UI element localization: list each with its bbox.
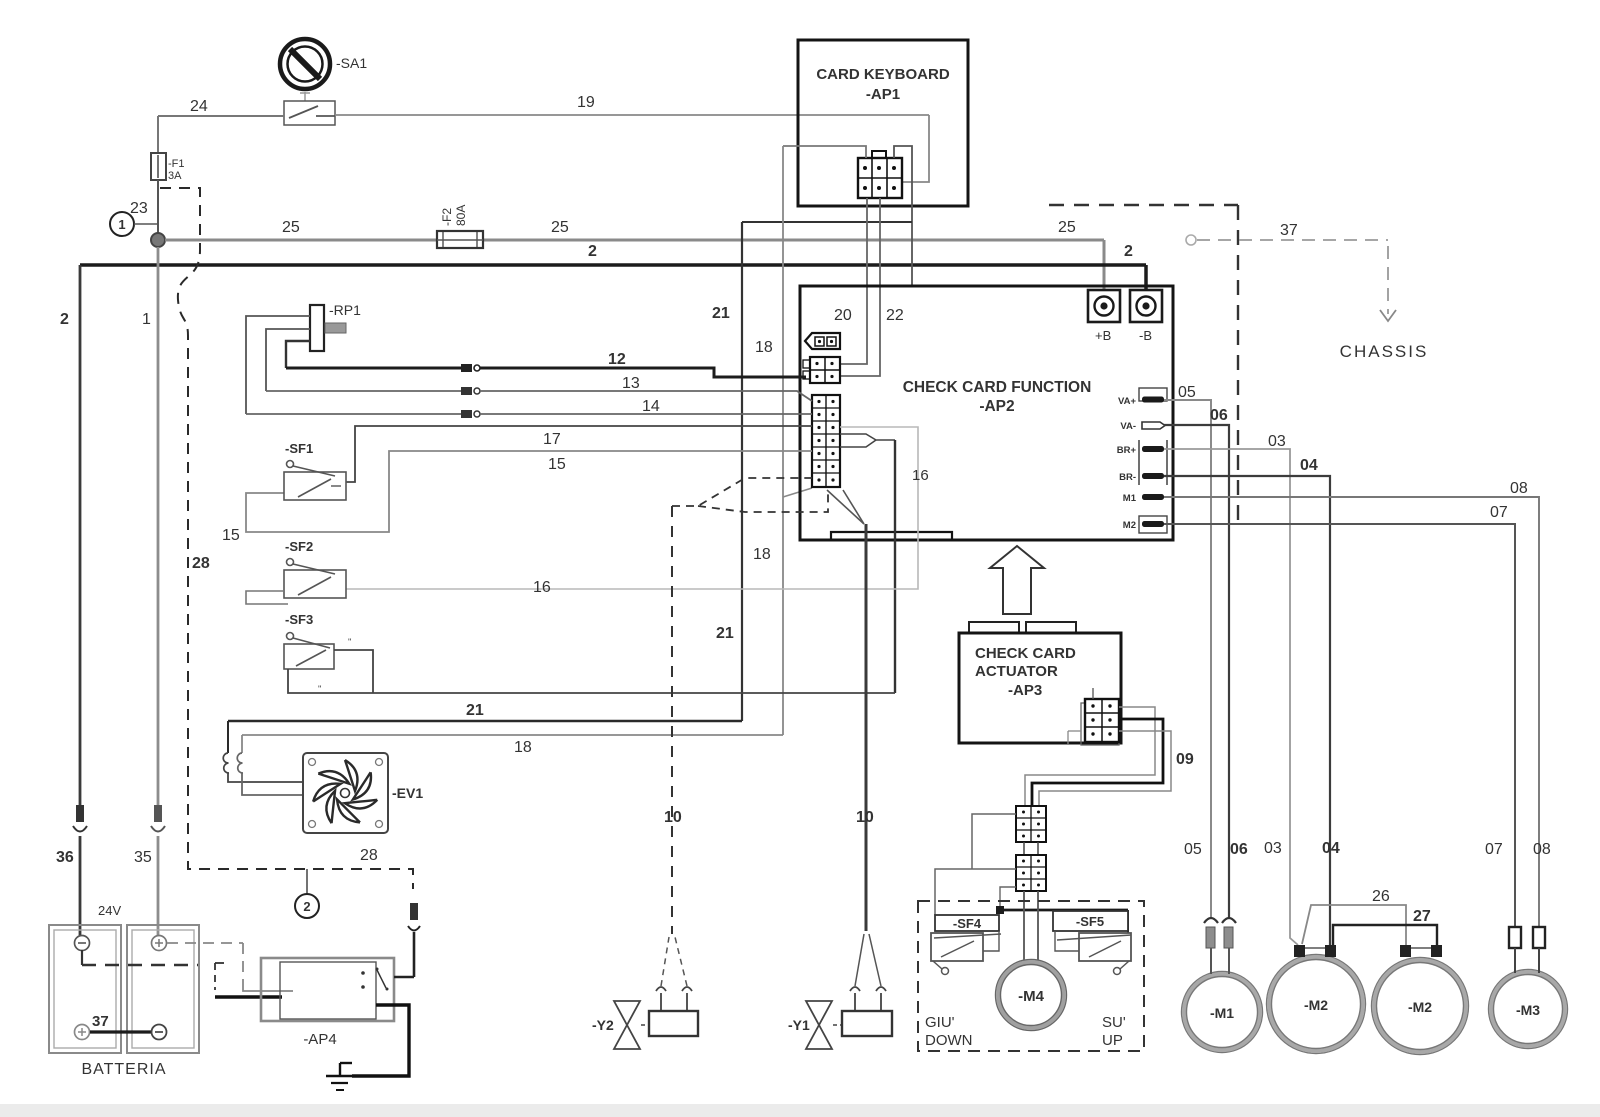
- fuse F2 80A: [437, 205, 483, 248]
- wire 21 lower run to fan: [223, 702, 742, 782]
- AP2 pin M2: [1123, 516, 1167, 533]
- svg-text:-AP4: -AP4: [303, 1031, 336, 1048]
- svg-text:17: 17: [543, 431, 561, 448]
- AP4 to ground wire: [352, 1005, 409, 1076]
- svg-text:07: 07: [1490, 504, 1508, 521]
- AP2 pin M1: [1123, 493, 1164, 504]
- svg-text:CHASSIS: CHASSIS: [1340, 342, 1429, 361]
- svg-text:21: 21: [712, 305, 730, 322]
- limit switch SF5: [1053, 911, 1131, 975]
- wire 1 (from node down): [142, 247, 158, 805]
- svg-text:2: 2: [1124, 243, 1133, 260]
- svg-text:-M2: -M2: [1304, 997, 1328, 1013]
- svg-text:25: 25: [551, 219, 569, 236]
- svg-text:07: 07: [1485, 841, 1503, 858]
- wire 15: [222, 451, 812, 544]
- svg-text:+B: +B: [1095, 328, 1111, 343]
- wire 12: [286, 351, 806, 377]
- svg-text:24V: 24V: [98, 903, 121, 918]
- svg-text:18: 18: [753, 546, 771, 563]
- harness C2 to SF4: [935, 814, 1016, 915]
- switch S (key contact) under SA1: [284, 92, 335, 125]
- M2 second terminals: [1400, 945, 1442, 957]
- wire 07: [1164, 504, 1515, 927]
- dashed wire battery+ to AP4: [167, 943, 293, 991]
- svg-text:-F2: -F2: [440, 208, 454, 226]
- AP2 pin VA-: [1120, 421, 1165, 432]
- GIU' DOWN / SU' UP labels: [925, 1014, 1126, 1049]
- svg-text:05: 05: [1184, 841, 1202, 858]
- svg-text:-Y1: -Y1: [788, 1017, 810, 1033]
- svg-text:08: 08: [1510, 480, 1528, 497]
- terminal circle 1: [110, 212, 158, 236]
- M2 first terminals: [1294, 945, 1336, 957]
- svg-text:10: 10: [664, 809, 682, 826]
- svg-text:-SF4: -SF4: [953, 916, 982, 931]
- svg-text:25: 25: [282, 219, 300, 236]
- svg-text:18: 18: [514, 739, 532, 756]
- wire 36 connector and hook: [56, 805, 87, 936]
- wire 23 (fuse to node): [130, 180, 158, 236]
- wire SF4 to SF5 (thick): [1000, 887, 1128, 933]
- svg-text:13: 13: [622, 375, 640, 392]
- AP4 to hook/28 wire: [394, 903, 420, 977]
- svg-text:-SA1: -SA1: [336, 55, 367, 71]
- connector P1 (2-pin pointed): [805, 333, 840, 349]
- svg-text:SU': SU': [1102, 1014, 1126, 1031]
- wire 05: [1164, 384, 1211, 918]
- svg-text:14: 14: [642, 398, 660, 415]
- svg-text:2: 2: [60, 311, 69, 328]
- wire 22: [840, 198, 904, 376]
- svg-text:-SF2: -SF2: [285, 539, 313, 554]
- svg-text:-SF1: -SF1: [285, 441, 313, 456]
- microswitch SF2: [246, 539, 346, 604]
- svg-text:-AP3: -AP3: [1008, 682, 1042, 699]
- microswitch SF1: [284, 441, 346, 500]
- svg-text:-RP1: -RP1: [329, 302, 361, 318]
- CARD KEYBOARD AP1 box: [798, 40, 968, 206]
- terminal -B: [1130, 290, 1162, 343]
- key switch SA1: [280, 39, 367, 89]
- dashed stub to AP4 input: [215, 963, 224, 990]
- svg-text:16: 16: [533, 579, 551, 596]
- svg-text:21: 21: [466, 702, 484, 719]
- fuse F1 3A: [151, 153, 185, 182]
- wire from AP1 pin to 18-drop: [783, 146, 866, 158]
- svg-text:CARD KEYBOARD: CARD KEYBOARD: [816, 66, 950, 83]
- pointer (twisted pair symbol to wire 10): [840, 434, 895, 447]
- RP1 wires to 12/13/14: [246, 316, 310, 414]
- wire 13: [266, 375, 812, 401]
- svg-text:VA+: VA+: [1118, 396, 1136, 407]
- svg-text:28: 28: [360, 847, 378, 864]
- wire 26: [1302, 888, 1406, 945]
- svg-text:1: 1: [142, 311, 151, 328]
- node on SF4/SF5 line: [996, 906, 1004, 914]
- svg-text:DOWN: DOWN: [925, 1032, 973, 1049]
- svg-text:28: 28: [192, 555, 210, 572]
- GIU/SU dashed box: [918, 901, 1144, 1051]
- svg-text:1: 1: [118, 217, 125, 232]
- wire 18 drop to fan: [237, 735, 303, 795]
- svg-text:M1: M1: [1123, 493, 1137, 504]
- ground symbol: [326, 1063, 352, 1090]
- svg-text:BR-: BR-: [1119, 472, 1136, 483]
- svg-text:03: 03: [1264, 840, 1282, 857]
- wire 09 harness: [1025, 707, 1194, 806]
- svg-text:12: 12: [608, 351, 626, 368]
- CHECK CARD FUNCTION AP2 box: [800, 286, 1173, 540]
- svg-text:08: 08: [1533, 841, 1551, 858]
- wire 25: [165, 219, 1104, 291]
- battery box 1: [49, 925, 121, 1053]
- svg-text:CHECK CARD: CHECK CARD: [975, 645, 1076, 662]
- svg-text:UP: UP: [1102, 1032, 1123, 1049]
- wire 24: [158, 98, 284, 153]
- svg-text:-M2: -M2: [1408, 999, 1432, 1015]
- svg-text:22: 22: [886, 307, 904, 324]
- motor M2 (first): [1267, 955, 1366, 1054]
- connector P2 (2x2): [803, 357, 840, 383]
- svg-text:-M1: -M1: [1210, 1005, 1234, 1021]
- svg-text:18: 18: [755, 339, 773, 356]
- CHECK CARD ACTUATOR AP3 box: [959, 546, 1121, 743]
- wire 10 dashed (Y2 solenoid): [656, 506, 692, 1011]
- terminal +B: [1088, 290, 1120, 343]
- potentiometer RP1: [310, 302, 361, 351]
- svg-text:04: 04: [1300, 457, 1318, 474]
- solenoid valve Y1: [788, 1001, 892, 1049]
- wire 14: [246, 398, 812, 418]
- wire 20: [834, 198, 867, 364]
- battery1 minus terminal: [75, 936, 90, 951]
- svg-text:21: 21: [716, 625, 734, 642]
- wire 16 loop (light gray): [346, 427, 929, 596]
- svg-text:CHECK CARD FUNCTION: CHECK CARD FUNCTION: [903, 379, 1092, 396]
- wire 35 connector and hook: [134, 805, 165, 936]
- wires C3 to M4: [1024, 891, 1038, 962]
- svg-text:04: 04: [1322, 840, 1340, 857]
- svg-text:-Y2: -Y2: [592, 1017, 614, 1033]
- connector C2: [1016, 806, 1046, 842]
- svg-text:-SF5: -SF5: [1076, 914, 1104, 929]
- terminal circle 2: [295, 869, 319, 918]
- svg-text:26: 26: [1372, 888, 1390, 905]
- scan edge strip: [0, 1104, 1600, 1117]
- wire from pointer down to node line (x=895): [894, 440, 896, 693]
- svg-text:-AP1: -AP1: [866, 86, 900, 103]
- dashed fork (Y2 wire into P3): [672, 478, 828, 512]
- battery box 2: [127, 925, 199, 1053]
- svg-text:-B: -B: [1139, 328, 1152, 343]
- SF3 output wire (y=693 run): [288, 650, 895, 693]
- wire 17: [346, 426, 812, 482]
- node (junction of 23/25/1): [151, 233, 165, 247]
- motor M2 (second): [1372, 958, 1469, 1055]
- dashed wire 28 (from F1 area down, around node, to AP4): [160, 188, 413, 889]
- svg-text:09: 09: [1176, 751, 1194, 768]
- svg-text:35: 35: [134, 849, 152, 866]
- svg-text:'': '': [348, 637, 352, 647]
- svg-text:2: 2: [588, 243, 597, 260]
- svg-text:-F1: -F1: [168, 158, 185, 170]
- M3 lead connectors: [1509, 927, 1545, 973]
- svg-text:15: 15: [222, 527, 240, 544]
- wire 2 (main negative rail): [60, 243, 1146, 805]
- svg-text:19: 19: [577, 94, 595, 111]
- wire 08: [1164, 480, 1551, 927]
- svg-text:05: 05: [1178, 384, 1196, 401]
- wire from AP1 pin to AP2 top: [894, 146, 912, 286]
- battery2 plus terminal: [152, 936, 167, 951]
- connector C3: [1016, 842, 1046, 891]
- connector C1 (AP3 2x3): [1068, 688, 1119, 745]
- V-funnel to wire 10 (Y1): [827, 490, 864, 524]
- connector X1 (AP1 6-pin): [858, 151, 902, 198]
- wire 10 solid (Y1 solenoid): [850, 524, 886, 1011]
- svg-text:03: 03: [1268, 433, 1286, 450]
- svg-text:2: 2: [303, 899, 310, 914]
- wire 04: [1164, 457, 1340, 945]
- svg-text:BATTERIA: BATTERIA: [81, 1061, 166, 1078]
- svg-text:VA-: VA-: [1120, 421, 1136, 432]
- svg-text:M2: M2: [1123, 520, 1136, 531]
- svg-text:-EV1: -EV1: [392, 785, 423, 801]
- wire 37 to chassis: [1186, 222, 1396, 321]
- microswitch SF3: [284, 612, 352, 694]
- wire 21 upper run: [712, 222, 912, 721]
- svg-text:37: 37: [1280, 222, 1298, 239]
- svg-text:15: 15: [548, 456, 566, 473]
- svg-text:23: 23: [130, 200, 148, 217]
- svg-text:-M3: -M3: [1516, 1002, 1540, 1018]
- svg-text:10: 10: [856, 809, 874, 826]
- fan EV1: [303, 753, 423, 833]
- svg-text:3A: 3A: [168, 170, 182, 182]
- svg-text:-M4: -M4: [1018, 988, 1044, 1005]
- svg-text:80A: 80A: [454, 205, 468, 226]
- thick feed into AP4: [215, 995, 282, 998]
- svg-text:06: 06: [1230, 841, 1248, 858]
- battery series dashed link: [82, 950, 198, 965]
- chassis dashed frame: [1049, 205, 1238, 527]
- M1 lead hooks/connectors: [1204, 918, 1236, 974]
- wire 19: [335, 94, 929, 182]
- wire 18 (long vertical + run to fan): [242, 146, 812, 756]
- svg-text:06: 06: [1210, 407, 1228, 424]
- svg-text:-AP2: -AP2: [979, 398, 1014, 415]
- svg-text:24: 24: [190, 98, 208, 115]
- battery1 plus bottom terminal + wire 37: [75, 1013, 167, 1040]
- wire 27: [1333, 908, 1437, 945]
- connector P3 (2x7): [812, 395, 840, 487]
- relay AP4: [261, 958, 394, 1048]
- svg-text:ACTUATOR: ACTUATOR: [975, 663, 1058, 680]
- limit switch SF4: [931, 915, 1001, 975]
- svg-text:27: 27: [1413, 908, 1431, 925]
- svg-text:37: 37: [92, 1013, 109, 1030]
- svg-text:36: 36: [56, 849, 74, 866]
- motor M3: [1489, 970, 1568, 1049]
- wire 06: [1164, 407, 1248, 918]
- svg-text:25: 25: [1058, 219, 1076, 236]
- wire 03: [1164, 433, 1298, 945]
- solenoid valve Y2: [592, 1001, 698, 1049]
- svg-text:GIU': GIU': [925, 1014, 955, 1031]
- AP2 pins BR+ / BR- with bracket: [1117, 440, 1167, 485]
- svg-text:20: 20: [834, 307, 852, 324]
- svg-text:BR+: BR+: [1117, 445, 1137, 456]
- svg-text:-SF3: -SF3: [285, 612, 313, 627]
- motor M4: [996, 960, 1067, 1031]
- motor M1: [1182, 972, 1263, 1053]
- svg-text:16: 16: [912, 467, 929, 484]
- AP2 pin VA+: [1118, 388, 1167, 407]
